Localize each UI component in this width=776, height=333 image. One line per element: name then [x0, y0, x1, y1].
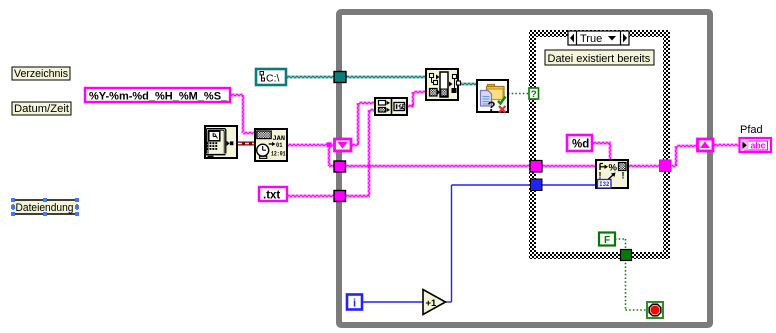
svg-text:F: F	[604, 235, 610, 246]
svg-text:Datei existiert bereits: Datei existiert bereits	[548, 53, 651, 65]
svg-text:C:\: C:\	[266, 73, 280, 85]
svg-text:abc: abc	[751, 140, 766, 151]
svg-text:True: True	[580, 33, 602, 45]
svg-text:I32: I32	[599, 181, 609, 189]
svg-text:Pfad: Pfad	[740, 124, 763, 136]
svg-text:?: ?	[531, 89, 537, 100]
svg-text:!: !	[622, 171, 625, 181]
svg-text:Verzeichnis: Verzeichnis	[14, 68, 68, 80]
svg-text:+1: +1	[426, 298, 438, 309]
svg-text:01: 01	[276, 142, 283, 150]
svg-text:Datum/Zeit: Datum/Zeit	[14, 103, 69, 115]
svg-text:?: ?	[487, 99, 495, 114]
svg-text:i: i	[353, 298, 356, 310]
svg-text:%d: %d	[572, 139, 589, 151]
svg-text:%Y-%m-%d_%H_%M_%S_: %Y-%m-%d_%H_%M_%S_	[89, 91, 228, 103]
svg-text:%: %	[609, 163, 618, 174]
svg-text:12:01: 12:01	[271, 150, 286, 157]
svg-text:.txt: .txt	[263, 190, 280, 202]
